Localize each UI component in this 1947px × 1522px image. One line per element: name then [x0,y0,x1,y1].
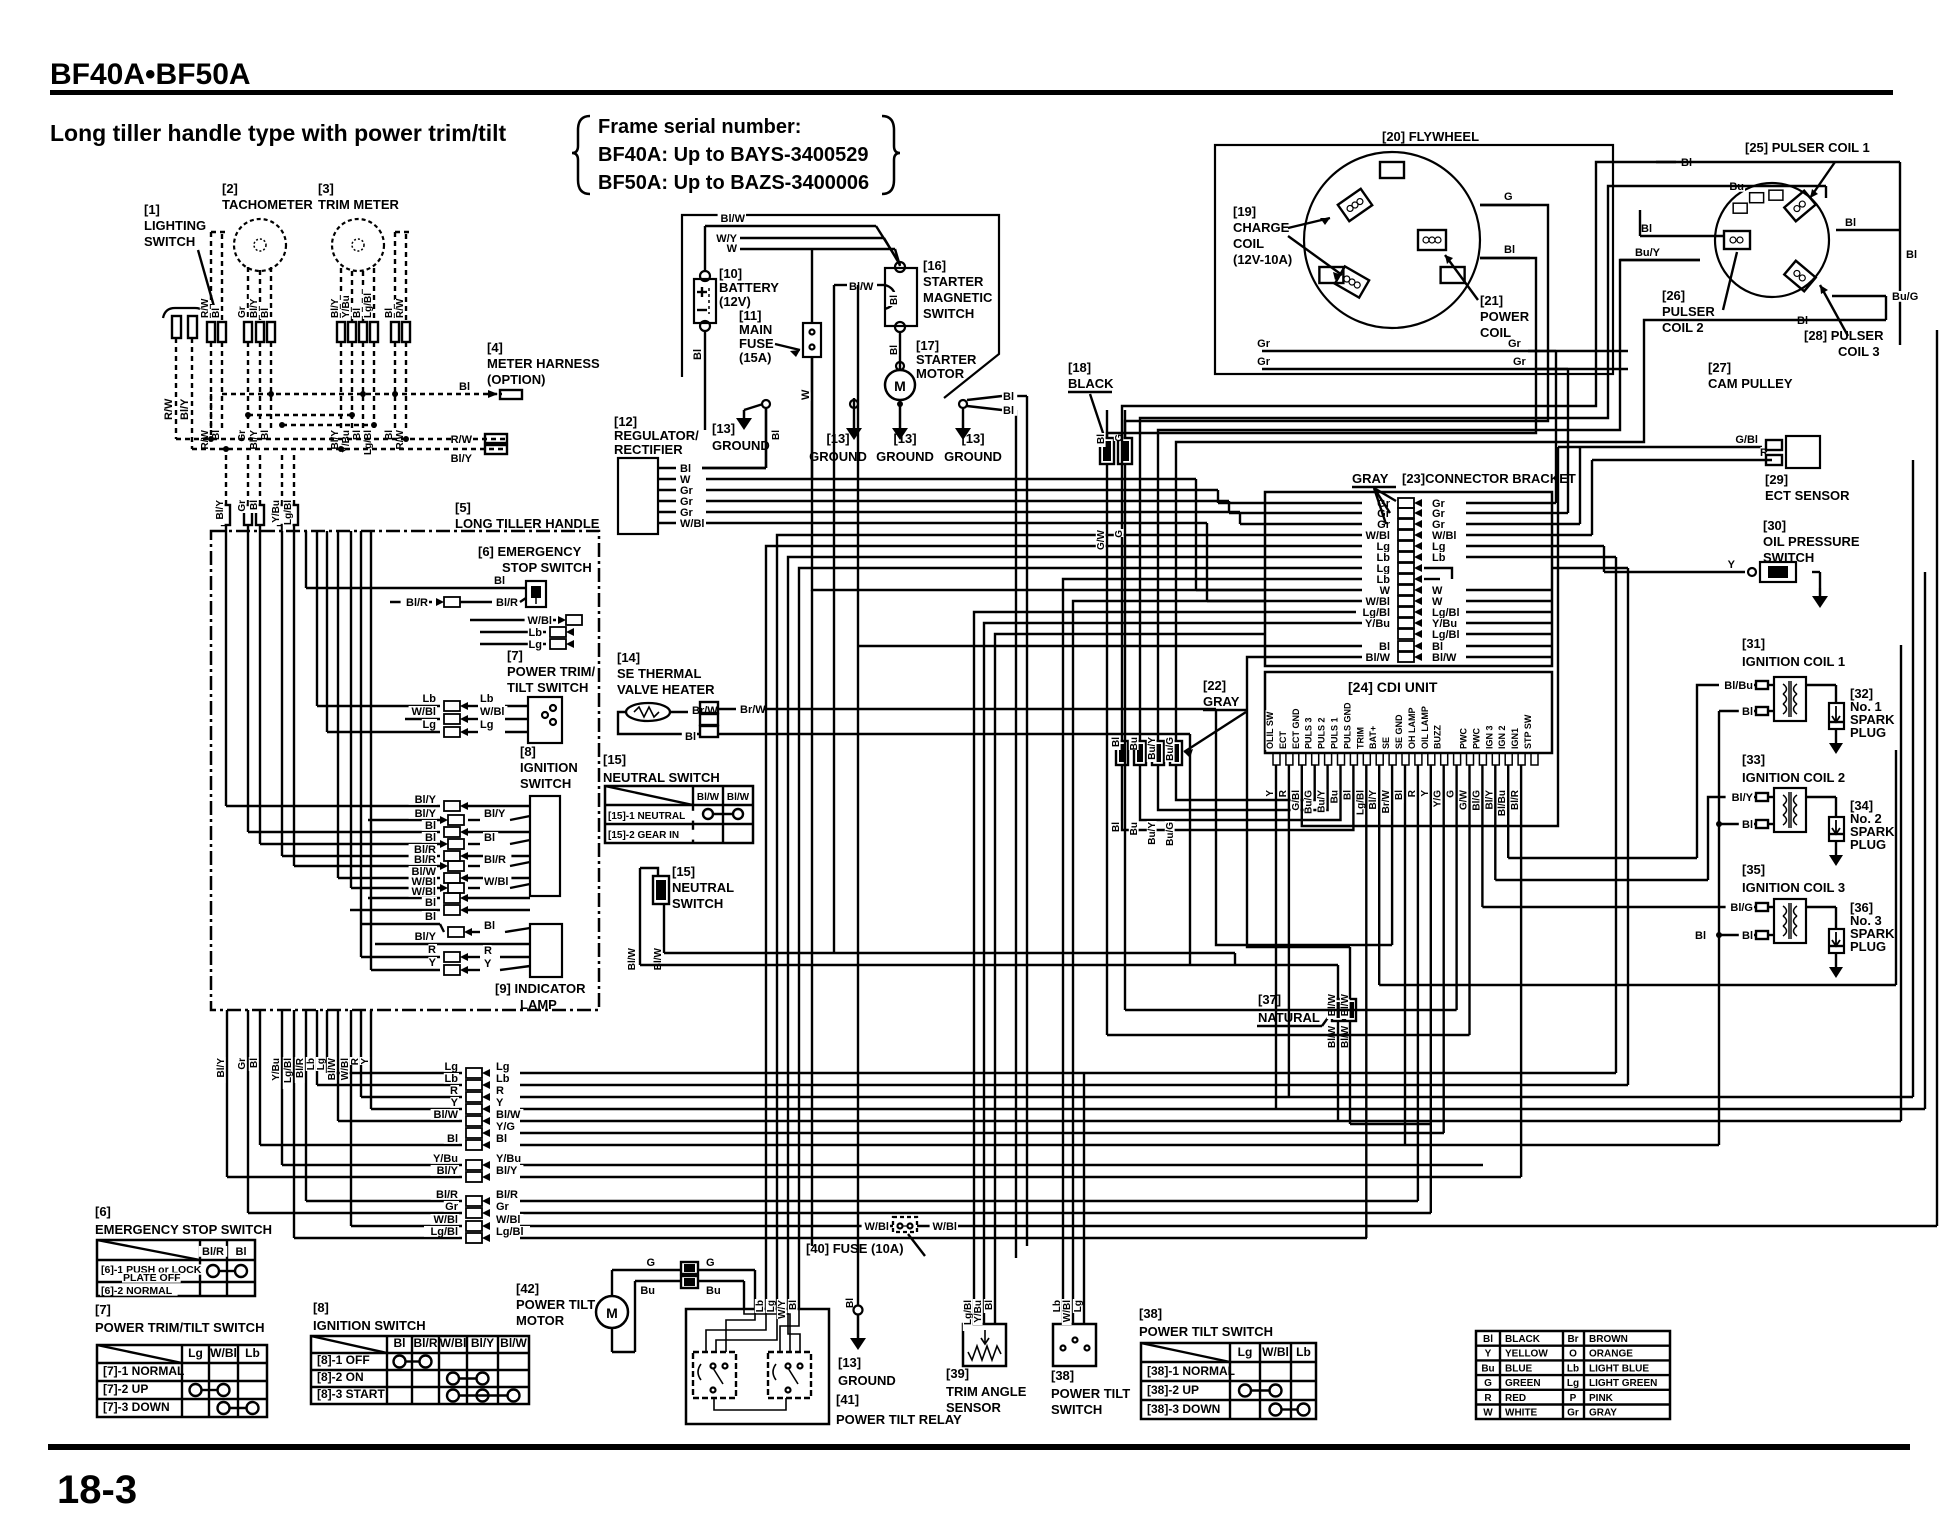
svg-text:ORANGE: ORANGE [1589,1349,1633,1360]
svg-text:Gr: Gr [237,500,248,512]
svg-text:Bl: Bl [1504,244,1515,256]
svg-text:R: R [428,944,436,956]
svg-text:Bl: Bl [249,500,260,510]
svg-text:Bl: Bl [692,349,704,360]
svg-text:SE: SE [1381,737,1391,749]
svg-text:Lb: Lb [496,1073,510,1085]
svg-text:Lb: Lb [529,627,543,639]
svg-text:[16]: [16] [923,258,946,273]
svg-text:Bu/G: Bu/G [1165,737,1176,761]
svg-text:Br/W: Br/W [740,704,766,716]
svg-text:Bl/W: Bl/W [1327,1025,1338,1048]
svg-text:Bl/Bu: Bl/Bu [1497,790,1508,816]
svg-text:Bl/R: Bl/R [1510,789,1521,810]
svg-text:R: R [484,945,492,957]
svg-text:W/Y: W/Y [777,1300,788,1319]
svg-text:[24] CDI UNIT: [24] CDI UNIT [1348,679,1438,695]
svg-text:Bl/Y: Bl/Y [451,453,473,465]
svg-text:Y: Y [451,1097,459,1109]
svg-text:TRIM: TRIM [1355,727,1365,749]
svg-text:Lg: Lg [480,719,493,731]
svg-text:Lg: Lg [1238,1345,1253,1359]
svg-text:Bl/Y: Bl/Y [1732,792,1754,804]
svg-text:Bl: Bl [484,832,495,844]
svg-text:GREEN: GREEN [1505,1378,1541,1389]
svg-text:SE THERMAL: SE THERMAL [617,666,702,681]
svg-text:TRIM METER: TRIM METER [318,197,399,212]
svg-text:Lb: Lb [755,1300,766,1312]
svg-text:Bl/Y: Bl/Y [215,500,226,520]
svg-text:Lb: Lb [1432,552,1446,564]
svg-text:G/W: G/W [1459,789,1470,810]
svg-text:POWER TILT RELAY: POWER TILT RELAY [836,1412,962,1427]
svg-text:[42]: [42] [516,1281,539,1296]
svg-text:PWC: PWC [1459,728,1469,749]
svg-text:OIL PRESSURE: OIL PRESSURE [1763,534,1860,549]
svg-text:[38]-3 DOWN: [38]-3 DOWN [1147,1402,1220,1416]
svg-text:TRIM ANGLE: TRIM ANGLE [946,1384,1027,1399]
svg-text:COIL 2: COIL 2 [1662,320,1704,335]
svg-text:SWITCH: SWITCH [144,234,195,249]
svg-text:COIL: COIL [1480,325,1511,340]
svg-text:Lg/Bl: Lg/Bl [283,1058,294,1083]
svg-text:Y: Y [1420,790,1431,797]
svg-text:METER HARNESS: METER HARNESS [487,356,600,371]
svg-text:GROUND: GROUND [838,1373,896,1388]
svg-text:Bu/Y: Bu/Y [1147,822,1158,845]
svg-text:STP SW: STP SW [1523,714,1533,749]
svg-text:Bl/W: Bl/W [1327,993,1338,1016]
svg-text:Y/Bu: Y/Bu [271,500,282,523]
svg-text:ECT: ECT [1278,730,1288,749]
svg-text:[29]: [29] [1765,472,1788,487]
svg-text:LIGHTING: LIGHTING [144,218,206,233]
svg-text:VALVE HEATER: VALVE HEATER [617,682,715,697]
svg-text:W/Bl: W/Bl [210,1346,237,1360]
svg-text:Bl: Bl [984,1300,995,1310]
svg-text:BROWN: BROWN [1589,1334,1628,1345]
svg-text:[23]CONNECTOR BRACKET: [23]CONNECTOR BRACKET [1402,471,1576,486]
svg-text:Bl: Bl [425,897,436,909]
svg-text:W/Bl: W/Bl [434,1214,458,1226]
svg-text:Bl: Bl [1111,737,1122,747]
svg-text:[33]: [33] [1742,752,1765,767]
svg-text:Bl/W: Bl/W [849,281,874,293]
svg-text:OLIL SW: OLIL SW [1265,711,1275,749]
svg-text:R/W: R/W [163,398,175,420]
svg-text:[17]: [17] [916,338,939,353]
svg-text:Bl/Y: Bl/Y [415,794,437,806]
svg-text:[10]: [10] [719,266,742,281]
svg-text:Gr: Gr [1257,356,1271,368]
svg-text:Bl: Bl [1641,223,1652,235]
svg-text:[41]: [41] [836,1392,859,1407]
svg-text:Bl: Bl [459,381,470,393]
svg-text:Bl: Bl [211,308,222,318]
svg-text:[31]: [31] [1742,636,1765,651]
svg-text:W/Bl: W/Bl [480,706,504,718]
svg-text:Bl: Bl [1111,822,1122,832]
svg-text:R/W: R/W [200,298,211,318]
svg-text:Y: Y [496,1097,504,1109]
svg-text:Bl: Bl [771,430,782,440]
svg-text:Bl: Bl [1742,930,1753,942]
svg-text:Bu: Bu [1481,1363,1494,1374]
svg-text:Bl/Y: Bl/Y [1368,790,1379,810]
svg-text:Bl/W: Bl/W [500,1336,527,1350]
svg-text:FUSE: FUSE [739,336,774,351]
svg-text:Br/W: Br/W [1381,789,1392,813]
svg-text:R: R [496,1085,504,1097]
svg-text:G: G [1484,1378,1492,1389]
svg-text:Bl/Y: Bl/Y [330,298,341,318]
svg-text:Bl/Bu: Bl/Bu [1724,680,1753,692]
svg-text:Y/Bu: Y/Bu [341,295,352,318]
svg-text:W/Bl: W/Bl [1262,1345,1289,1359]
svg-text:[15]: [15] [603,752,626,767]
svg-text:[38]-2 UP: [38]-2 UP [1147,1383,1199,1397]
svg-text:Bl/W: Bl/W [627,947,638,970]
svg-text:Bl/R: Bl/R [496,1189,518,1201]
svg-text:Lg/Bl: Lg/Bl [363,430,374,455]
svg-text:Bl/W: Bl/W [434,1109,459,1121]
svg-text:[6]: [6] [95,1204,111,1219]
svg-text:GROUND: GROUND [944,449,1002,464]
svg-text:COIL: COIL [1233,236,1264,251]
svg-text:Bl/Y: Bl/Y [496,1165,518,1177]
svg-text:Y/Bu: Y/Bu [496,1153,521,1165]
svg-text:SE GND: SE GND [1394,714,1404,749]
svg-text:Y/Bu: Y/Bu [433,1153,458,1165]
svg-text:Bl: Bl [1695,930,1706,942]
svg-text:[7]-3 DOWN: [7]-3 DOWN [103,1400,170,1414]
svg-text:[26]: [26] [1662,288,1685,303]
svg-text:MOTOR: MOTOR [516,1313,565,1328]
svg-text:POWER TILT: POWER TILT [516,1297,595,1312]
svg-text:[25] PULSER COIL 1: [25] PULSER COIL 1 [1745,140,1870,155]
svg-text:Bl/Y: Bl/Y [415,808,437,820]
svg-text:Y: Y [429,957,437,969]
svg-text:[7]-1 NORMAL: [7]-1 NORMAL [103,1364,184,1378]
svg-text:Y: Y [360,1058,371,1065]
svg-text:POWER TRIM/: POWER TRIM/ [507,664,595,679]
svg-text:W/Bl: W/Bl [865,1221,889,1233]
svg-text:Bl/W: Bl/W [727,792,750,803]
svg-text:W: W [1483,1408,1493,1419]
svg-text:Bl/G: Bl/G [1730,902,1753,914]
svg-text:Gr: Gr [1513,356,1527,368]
svg-text:[13]: [13] [838,1355,861,1370]
svg-text:W/Bl: W/Bl [496,1214,520,1226]
svg-text:Bl/Y: Bl/Y [216,1058,227,1078]
svg-text:[8]-3 START: [8]-3 START [317,1387,385,1401]
svg-text:[7]: [7] [95,1302,111,1317]
svg-text:[6] EMERGENCY: [6] EMERGENCY [478,544,582,559]
svg-text:Bl: Bl [352,308,363,318]
svg-text:[7]: [7] [507,648,523,663]
svg-text:W/Bl: W/Bl [484,876,508,888]
svg-text:[21]: [21] [1480,293,1503,308]
svg-text:SENSOR: SENSOR [946,1400,1002,1415]
svg-text:[37]: [37] [1258,992,1281,1007]
svg-text:Bl: Bl [394,1336,406,1350]
svg-text:IGN1: IGN1 [1510,728,1520,749]
svg-text:[4]: [4] [487,340,503,355]
svg-text:GROUND: GROUND [876,449,934,464]
svg-text:Lb: Lb [1567,1363,1579,1374]
svg-text:Lb: Lb [423,693,437,705]
svg-text:Bu: Bu [1129,737,1140,750]
svg-text:BF50A: Up to BAZS-3400006: BF50A: Up to BAZS-3400006 [598,172,869,194]
svg-text:POWER TILT: POWER TILT [1051,1386,1130,1401]
svg-text:BLUE: BLUE [1505,1363,1533,1374]
svg-text:G/W: G/W [1096,529,1107,550]
svg-text:[7]-2 UP: [7]-2 UP [103,1382,148,1396]
svg-text:[15]: [15] [672,864,695,879]
svg-text:BLACK: BLACK [1068,376,1114,391]
svg-text:M: M [894,378,906,394]
svg-text:Y/Bu: Y/Bu [973,1300,984,1323]
svg-text:[3]: [3] [318,181,334,196]
svg-text:PWC: PWC [1471,728,1481,749]
svg-text:SWITCH: SWITCH [1051,1402,1102,1417]
svg-text:R: R [450,1085,458,1097]
svg-text:Bl: Bl [889,295,900,305]
svg-text:GRAY: GRAY [1589,1408,1617,1419]
svg-text:EMERGENCY STOP SWITCH: EMERGENCY STOP SWITCH [95,1222,272,1237]
svg-text:Bu/G: Bu/G [1892,291,1918,303]
svg-text:[40] FUSE (10A): [40] FUSE (10A) [806,1241,904,1256]
svg-text:(OPTION): (OPTION) [487,372,546,387]
svg-text:Gr: Gr [1567,1408,1579,1419]
svg-text:[27]: [27] [1708,360,1731,375]
svg-text:Bl: Bl [249,1058,260,1068]
svg-text:Bl: Bl [1742,706,1753,718]
svg-text:RED: RED [1505,1393,1526,1404]
svg-text:Frame serial number:: Frame serial number: [598,116,801,138]
svg-text:Bl/R: Bl/R [414,1336,438,1350]
svg-text:Bl: Bl [1003,391,1014,403]
svg-text:YELLOW: YELLOW [1505,1349,1548,1360]
svg-text:STARTER: STARTER [923,274,984,289]
svg-text:Bl: Bl [1003,405,1014,417]
svg-text:(12V-10A): (12V-10A) [1233,252,1292,267]
svg-text:Bl: Bl [236,1246,247,1258]
svg-text:IGNITION COIL 1: IGNITION COIL 1 [1742,654,1845,669]
svg-text:[20] FLYWHEEL: [20] FLYWHEEL [1382,129,1479,144]
svg-text:Br: Br [1567,1334,1578,1345]
svg-text:Bl: Bl [1394,790,1405,800]
svg-text:PINK: PINK [1589,1393,1614,1404]
svg-text:Y/G: Y/G [1433,790,1444,807]
svg-text:G: G [1114,434,1125,442]
svg-text:[1]: [1] [144,202,160,217]
svg-text:POWER: POWER [1480,309,1530,324]
svg-text:BUZZ: BUZZ [1433,725,1443,749]
svg-text:PULS 2: PULS 2 [1317,717,1327,749]
svg-text:Lg/Bl: Lg/Bl [363,293,374,318]
svg-text:[13]: [13] [712,421,735,436]
svg-text:[38]-1 NORMAL: [38]-1 NORMAL [1147,1364,1235,1378]
svg-text:CHARGE: CHARGE [1233,220,1290,235]
svg-text:R/W: R/W [395,298,406,318]
svg-text:Bl/Y: Bl/Y [249,298,260,318]
svg-text:Y: Y [1265,790,1276,797]
svg-text:Bl/W: Bl/W [496,1109,521,1121]
svg-text:[12]: [12] [614,414,637,429]
svg-text:Long tiller handle type with p: Long tiller handle type with power trim/… [50,120,507,146]
svg-text:Bl/R: Bl/R [202,1246,224,1258]
svg-text:Lg: Lg [316,1058,327,1070]
svg-text:[13]: [13] [826,431,849,446]
svg-text:(15A): (15A) [739,350,772,365]
svg-text:Bl/R: Bl/R [436,1189,458,1201]
svg-text:Bl/W: Bl/W [697,792,720,803]
svg-text:G/Bl: G/Bl [1291,790,1302,811]
svg-text:Bl: Bl [260,308,271,318]
svg-text:W: W [727,243,738,255]
svg-text:Gr: Gr [1257,338,1271,350]
svg-text:W: W [800,389,812,400]
svg-text:[22]: [22] [1203,678,1226,693]
svg-text:Y: Y [484,958,492,970]
svg-text:G: G [646,1257,655,1269]
svg-text:Bl: Bl [425,911,436,923]
svg-text:BLACK: BLACK [1505,1334,1541,1345]
svg-text:WHITE: WHITE [1505,1408,1538,1419]
svg-text:Bl: Bl [496,1133,507,1145]
svg-text:Bl: Bl [1906,249,1917,261]
svg-text:W/Bl: W/Bl [680,518,704,530]
svg-text:POWER TILT SWITCH: POWER TILT SWITCH [1139,1324,1273,1339]
svg-text:R: R [1278,789,1289,797]
svg-text:STARTER: STARTER [916,352,977,367]
svg-text:Bl/G: Bl/G [1471,790,1482,811]
svg-text:Y: Y [1728,559,1736,571]
svg-text:Lb: Lb [1296,1345,1311,1359]
svg-text:P: P [1570,1393,1577,1404]
svg-text:Lg/Bl: Lg/Bl [431,1226,459,1238]
svg-text:BF40A: Up to BAYS-3400529: BF40A: Up to BAYS-3400529 [598,144,868,166]
svg-text:G: G [1114,530,1125,538]
svg-text:(12V): (12V) [719,294,751,309]
svg-text:PLUG: PLUG [1850,939,1886,954]
svg-text:G/Bl: G/Bl [1735,434,1758,446]
svg-text:Gr: Gr [237,1058,248,1070]
svg-text:Bl: Bl [425,820,436,832]
svg-text:Bu/Y: Bu/Y [1317,790,1328,813]
svg-text:Bl/W: Bl/W [653,947,664,970]
svg-text:BATTERY: BATTERY [719,280,779,295]
svg-text:Bl: Bl [788,1300,799,1310]
svg-text:REGULATOR/: REGULATOR/ [614,428,699,443]
svg-text:[8]-2 ON: [8]-2 ON [317,1370,364,1384]
svg-text:W/Bl: W/Bl [933,1221,957,1233]
svg-text:IGNITION SWITCH: IGNITION SWITCH [313,1318,426,1333]
svg-text:LIGHT BLUE: LIGHT BLUE [1589,1363,1649,1374]
svg-text:Bl: Bl [425,832,436,844]
svg-text:Bu: Bu [640,1285,655,1297]
svg-text:W/Bl: W/Bl [528,615,552,627]
svg-text:ECT GND: ECT GND [1291,708,1301,749]
svg-text:Bl/R: Bl/R [295,1057,306,1078]
svg-text:Gr: Gr [1508,338,1522,350]
svg-text:Y/Bu: Y/Bu [1365,618,1390,630]
svg-text:[9] INDICATOR: [9] INDICATOR [495,981,586,996]
svg-text:Bu: Bu [1129,822,1140,835]
svg-text:Lg: Lg [423,719,436,731]
svg-text:LONG TILLER HANDLE: LONG TILLER HANDLE [455,516,600,531]
svg-text:[38]: [38] [1139,1306,1162,1321]
svg-text:[8]-1 OFF: [8]-1 OFF [317,1353,370,1367]
svg-text:Bl: Bl [494,575,505,587]
svg-text:Gr: Gr [237,306,248,318]
svg-text:Y/Bu: Y/Bu [271,1058,282,1081]
svg-text:Lg: Lg [766,1300,777,1312]
svg-text:OH LAMP: OH LAMP [1407,708,1417,750]
svg-text:Bl: Bl [889,345,900,355]
svg-text:Bl/R: Bl/R [484,854,506,866]
svg-text:[30]: [30] [1763,518,1786,533]
svg-text:W/Bl: W/Bl [412,706,436,718]
svg-text:LIGHT GREEN: LIGHT GREEN [1589,1378,1657,1389]
svg-text:Gr: Gr [445,1201,459,1213]
svg-text:IGNITION: IGNITION [520,760,578,775]
svg-text:NEUTRAL SWITCH: NEUTRAL SWITCH [603,770,720,785]
svg-text:POWER TRIM/TILT SWITCH: POWER TRIM/TILT SWITCH [95,1320,264,1335]
svg-text:[18]: [18] [1068,360,1091,375]
svg-text:Bl/Y: Bl/Y [437,1165,459,1177]
svg-text:[6]-2 NORMAL: [6]-2 NORMAL [101,1285,173,1297]
svg-text:COIL 3: COIL 3 [1838,344,1880,359]
svg-text:PULSER: PULSER [1662,304,1715,319]
svg-text:W/Bl: W/Bl [1062,1300,1073,1322]
svg-text:IGN 2: IGN 2 [1497,725,1507,749]
svg-text:[35]: [35] [1742,862,1765,877]
svg-text:Bl/R: Bl/R [496,597,518,609]
svg-text:Lg: Lg [445,1061,458,1073]
svg-text:IGNITION COIL 3: IGNITION COIL 3 [1742,880,1845,895]
svg-text:PLUG: PLUG [1850,725,1886,740]
svg-text:Bu: Bu [706,1285,721,1297]
svg-text:NEUTRAL: NEUTRAL [672,880,734,895]
svg-text:OIL LAMP: OIL LAMP [1420,706,1430,749]
svg-text:RECTIFIER: RECTIFIER [614,442,683,457]
svg-text:GRAY: GRAY [1203,694,1240,709]
svg-text:GRAY: GRAY [1352,471,1389,486]
svg-text:SWITCH: SWITCH [672,896,723,911]
svg-text:PULS 1: PULS 1 [1330,717,1340,749]
svg-text:Bl: Bl [1742,819,1753,831]
svg-text:Bl: Bl [1845,217,1856,229]
svg-text:Bl: Bl [384,308,395,318]
svg-text:IGN 3: IGN 3 [1484,725,1494,749]
svg-text:PULS GND: PULS GND [1342,702,1352,749]
svg-text:SWITCH: SWITCH [520,776,571,791]
svg-text:Lg/Bl: Lg/Bl [496,1226,524,1238]
svg-text:MAGNETIC: MAGNETIC [923,290,993,305]
svg-text:O: O [1569,1349,1577,1360]
svg-text:Bl/Y: Bl/Y [179,398,191,420]
svg-text:Lb: Lb [245,1346,260,1360]
svg-text:Bl/W: Bl/W [1366,652,1391,664]
svg-text:[38]: [38] [1051,1368,1074,1383]
svg-text:Lg/Bl: Lg/Bl [283,500,294,525]
svg-text:W/Bl: W/Bl [440,1336,467,1350]
svg-text:Bl/W: Bl/W [1432,652,1457,664]
svg-text:G: G [706,1257,715,1269]
svg-text:[8]: [8] [520,744,536,759]
